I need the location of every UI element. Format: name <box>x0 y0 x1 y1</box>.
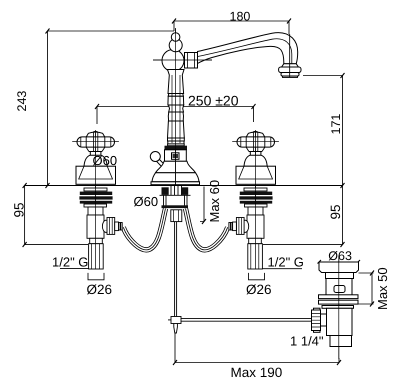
skirt tier2 <box>152 173 199 182</box>
body block <box>165 150 187 162</box>
horseshoe washer <box>162 205 189 208</box>
right handle bar centerline <box>232 140 278 142</box>
dark joint band <box>165 146 188 150</box>
dim 243 extension <box>48 30 175 32</box>
left inner step <box>90 238 103 243</box>
drain centerline <box>338 256 340 360</box>
column inner lines <box>172 75 180 143</box>
spout outlet <box>279 64 301 78</box>
right valve centerline <box>255 131 257 269</box>
ball joint <box>162 50 184 72</box>
right handle bar centerline <box>232 140 278 142</box>
dim 250 ticks <box>95 104 256 109</box>
shank <box>171 186 182 195</box>
right tube upper <box>248 207 263 215</box>
finial ball <box>169 39 182 52</box>
left valve centerline <box>95 130 97 269</box>
dim 243 line <box>47 31 49 186</box>
left valve body <box>87 215 104 238</box>
center nipple <box>171 210 182 222</box>
hose left <box>123 209 165 250</box>
washer line <box>160 194 191 196</box>
left handle bar centerline <box>72 140 119 142</box>
centerline overlay <box>72 29 339 360</box>
leader 1/2G left <box>60 268 89 270</box>
svg-text:Max 50: Max 50 <box>375 267 390 310</box>
column long barrel <box>167 121 184 138</box>
dim Max60 ticks <box>202 219 206 224</box>
column neck <box>168 70 185 94</box>
left dark rings <box>80 192 112 195</box>
drain flange <box>319 262 359 273</box>
body block screw <box>172 153 180 160</box>
shank bolts <box>162 187 169 195</box>
left elbow ferrule <box>119 223 121 231</box>
column seg B <box>168 96 184 105</box>
lever knob <box>150 152 160 162</box>
right handle bar <box>237 137 275 147</box>
column seg C <box>168 112 183 121</box>
left dome <box>84 155 107 166</box>
dim O63 ticks <box>318 260 361 264</box>
skirt dome <box>156 161 196 173</box>
svg-text:95: 95 <box>328 204 343 219</box>
column waist <box>169 105 184 112</box>
right valve centerline <box>255 130 257 269</box>
dim 95 left line <box>25 186 88 245</box>
drain rod <box>181 318 312 321</box>
rod lower pin <box>174 324 178 334</box>
svg-text:243: 243 <box>15 91 29 112</box>
spout outer <box>198 33 298 64</box>
right inner step <box>249 238 262 243</box>
leader 1/2G right <box>262 268 302 270</box>
column grooves2 <box>168 138 185 146</box>
right elbow cap <box>242 220 249 232</box>
svg-text:171: 171 <box>329 114 343 135</box>
right washer top <box>244 188 267 191</box>
left elbow nipple <box>115 222 119 231</box>
svg-text:Ø63: Ø63 <box>328 249 352 263</box>
dim Max190 line <box>175 333 339 363</box>
drain washer3 <box>322 306 354 309</box>
base centerline <box>175 150 177 185</box>
left escutcheon rect <box>76 166 116 184</box>
svg-text:Ø60: Ø60 <box>93 153 118 168</box>
drain bottom tube <box>330 336 352 347</box>
left washer top <box>84 188 107 191</box>
right handle stem <box>250 152 261 156</box>
rod joint square <box>171 317 181 324</box>
svg-text:1/2" G: 1/2" G <box>52 255 88 270</box>
lever arm <box>157 160 166 168</box>
column centerline <box>175 29 177 186</box>
left valve centerline <box>95 131 97 269</box>
left pipe <box>89 244 104 269</box>
column seg grooves1 <box>168 94 183 97</box>
right valve body <box>247 215 264 238</box>
svg-text:250 ±20: 250 ±20 <box>188 92 239 108</box>
right handle boss <box>246 131 265 137</box>
dim Max60 line <box>200 187 204 222</box>
rod joint stub <box>168 319 171 321</box>
drain slot <box>334 286 345 293</box>
left handle boss lines <box>93 132 97 152</box>
right pipe <box>248 244 263 269</box>
hose right <box>186 209 228 250</box>
right elbow nipple <box>233 222 237 231</box>
left handle bar centerline <box>72 140 119 142</box>
column centerline <box>175 28 177 150</box>
right escutcheon dome flare <box>239 166 273 179</box>
svg-text:Ø26: Ø26 <box>87 282 113 297</box>
dim 180 line <box>174 21 289 34</box>
center below-deck <box>123 186 227 333</box>
right washer bottom <box>245 204 268 207</box>
right dome <box>244 155 267 166</box>
right escutcheon rect <box>236 166 276 184</box>
pop-up rod <box>175 222 177 317</box>
svg-text:1/2" G: 1/2" G <box>268 255 304 270</box>
base plate <box>151 182 200 185</box>
finial small circle <box>171 33 180 42</box>
dim 95 left ticks <box>23 183 27 247</box>
right handle boss lines <box>253 132 257 152</box>
clevis collar <box>321 314 327 326</box>
dim 250 line <box>97 107 254 125</box>
drain tube <box>327 308 353 335</box>
right dark rings <box>240 192 272 195</box>
clevis caps <box>314 308 321 310</box>
left handle bar <box>77 137 115 147</box>
left escutcheon dome flare <box>79 166 113 179</box>
dim 243 ticks <box>46 29 50 189</box>
deck line <box>25 185 343 187</box>
clevis knurl <box>312 310 321 331</box>
drain centerline <box>338 256 340 360</box>
svg-text:Max 60: Max 60 <box>207 180 222 223</box>
drain washer1 <box>319 295 359 299</box>
left elbow cap <box>102 220 109 232</box>
svg-text:1 1/4": 1 1/4" <box>290 334 324 349</box>
svg-text:Ø60: Ø60 <box>134 194 159 209</box>
dim Max50 line <box>359 273 374 304</box>
drain body <box>326 279 352 296</box>
drain neck <box>326 273 354 279</box>
dim O26 bracket right <box>249 273 265 280</box>
left handle boss <box>86 131 105 137</box>
ball joint centerline <box>153 59 212 61</box>
spout connector <box>185 53 198 69</box>
dim O26 bracket left <box>88 273 104 280</box>
dim 171/95 right line <box>263 76 343 245</box>
left tube upper <box>88 207 103 215</box>
drain washer2 <box>319 300 359 304</box>
svg-text:Ø26: Ø26 <box>246 282 272 297</box>
right elbow ferrule <box>231 223 233 231</box>
outlet centerline <box>289 34 291 77</box>
left elbow hex <box>107 218 115 235</box>
svg-text:Max 190: Max 190 <box>231 365 283 380</box>
outlet centerline <box>289 34 291 77</box>
right elbow hex <box>236 218 244 235</box>
ball joint centerline <box>153 59 212 61</box>
dim 171/95 right ticks <box>341 73 345 247</box>
left washer bottom <box>84 204 107 207</box>
bracket legs <box>164 195 188 205</box>
dim 180 ticks <box>172 19 291 24</box>
dim Max50 ticks <box>370 271 374 307</box>
dim Max190 ticks <box>173 360 341 365</box>
svg-text:95: 95 <box>12 202 27 217</box>
svg-text:180: 180 <box>230 9 251 23</box>
spout inner contour <box>198 39 292 64</box>
left handle stem <box>90 152 101 156</box>
